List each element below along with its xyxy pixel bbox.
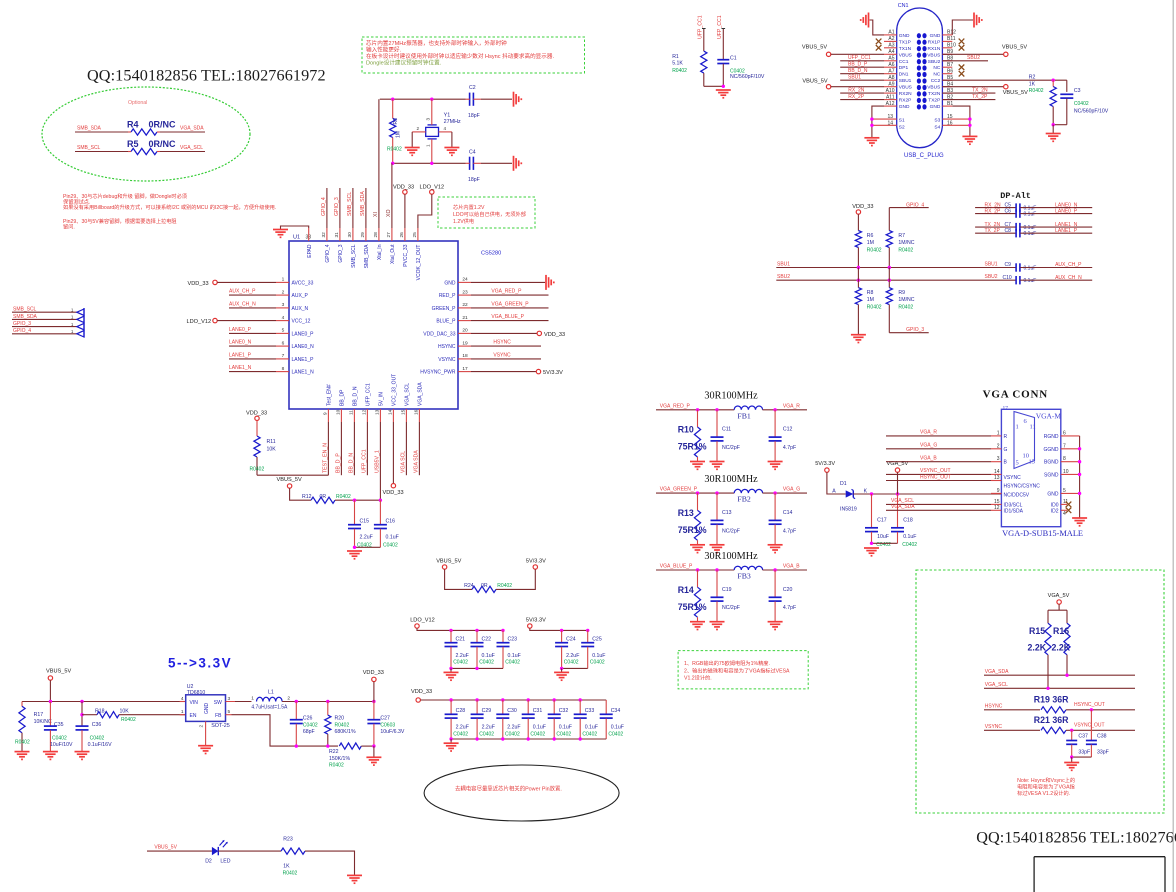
svg-text:NC/2pF: NC/2pF: [722, 528, 740, 534]
diode D1 IN5819: [846, 490, 854, 497]
wire R1/C1 bottoms: [704, 85, 724, 87]
svg-text:R2: R2: [1029, 75, 1036, 81]
svg-text:SMB_SCL: SMB_SCL: [13, 307, 37, 313]
node junction VGA ground bus: [1078, 492, 1081, 495]
wire R5 to VGA_SCL: [160, 151, 205, 153]
node junction C32 top: [553, 698, 556, 701]
svg-text:C0402: C0402: [303, 722, 318, 728]
svg-text:1: 1: [181, 709, 184, 715]
wire R16 to VGA_SDA: [1066, 655, 1068, 675]
svg-text:R0402: R0402: [672, 68, 687, 74]
svg-text:R18: R18: [95, 708, 105, 714]
svg-text:TX_2P: TX_2P: [972, 94, 988, 100]
wire R21 to VSYNC_OUT: [1066, 729, 1135, 731]
wire LDO_V12 rail: [417, 628, 503, 630]
svg-text:15: 15: [401, 409, 407, 415]
svg-text:TX_2N: TX_2N: [985, 222, 1001, 228]
svg-text:TX1N: TX1N: [899, 46, 912, 52]
capacitor C21 2.2uF: [450, 630, 452, 642]
ground below C19: [710, 621, 725, 623]
svg-text:BGND: BGND: [1044, 460, 1059, 466]
svg-text:R8: R8: [867, 290, 874, 296]
svg-text:R0402: R0402: [1029, 88, 1044, 94]
svg-text:C0402: C0402: [453, 660, 468, 666]
svg-text:VBUS_5V: VBUS_5V: [1002, 44, 1027, 50]
ground below R13: [690, 544, 705, 546]
svg-text:R5: R5: [127, 139, 139, 149]
svg-text:C0402: C0402: [479, 660, 494, 666]
pin 5 (LANE0_P) stub of U1: [276, 332, 289, 334]
svg-text:2.2uF: 2.2uF: [507, 725, 520, 731]
svg-text:680K/1%: 680K/1%: [335, 729, 356, 735]
node junction C32 bottom: [553, 737, 556, 740]
pin 10 (SGND) of VGA connector: [1061, 473, 1080, 475]
capacitor C16 0.1uF: [379, 500, 381, 524]
svg-text:C0402: C0402: [505, 731, 520, 737]
wire R2/C3 bottoms: [1053, 124, 1067, 126]
svg-text:C19: C19: [722, 587, 732, 593]
svg-text:1.2V供电: 1.2V供电: [453, 217, 474, 225]
svg-text:68pF: 68pF: [303, 729, 315, 735]
node junction C26 bottom: [295, 744, 298, 747]
node junction C19 top: [715, 568, 718, 571]
svg-text:LANE0_P: LANE0_P: [292, 331, 315, 337]
svg-text:0R: 0R: [320, 494, 327, 500]
svg-text:SBU2: SBU2: [928, 59, 941, 65]
svg-text:A5: A5: [888, 56, 894, 62]
svg-text:V1.2设计的.: V1.2设计的.: [684, 674, 712, 682]
svg-text:LANE1_P: LANE1_P: [1055, 228, 1078, 234]
svg-text:ID2: ID2: [1051, 508, 1059, 514]
svg-text:C1: C1: [730, 56, 737, 62]
capacitor C1 NC/560pF/10V: [717, 59, 729, 61]
pin 7 (LANE1_P) stub of U1: [276, 358, 289, 360]
power port 5V/3.3V pin17: [536, 369, 540, 373]
svg-text:SMB_SCL: SMB_SCL: [351, 244, 357, 268]
svg-text:A1: A1: [888, 30, 894, 36]
svg-text:10K: 10K: [120, 708, 130, 714]
svg-text:VDD_33: VDD_33: [852, 204, 873, 210]
svg-text:R23: R23: [283, 837, 293, 843]
power port VDD_33 pin1: [213, 280, 217, 284]
wire SMB_SCL above U1: [352, 188, 354, 228]
svg-text:GPIO_4: GPIO_4: [321, 197, 327, 216]
svg-text:C13: C13: [722, 510, 732, 516]
svg-text:5V_IN: 5V_IN: [379, 392, 385, 406]
node junction R16/VGA_SDA: [1065, 674, 1068, 677]
ground below R23: [347, 874, 362, 876]
svg-text:U1: U1: [293, 235, 300, 241]
wire D1 cathode to VGA pin9: [853, 493, 1001, 495]
svg-text:C38: C38: [1097, 733, 1107, 739]
svg-text:16: 16: [414, 409, 420, 415]
svg-text:A9: A9: [888, 82, 894, 88]
svg-text:26: 26: [399, 232, 405, 238]
svg-text:14: 14: [887, 121, 893, 127]
svg-text:S2: S2: [899, 125, 905, 131]
svg-text:1: 1: [282, 277, 285, 283]
svg-text:R11: R11: [267, 439, 276, 445]
pin 32 (GPIO_4) stub of U1: [326, 228, 328, 241]
svg-text:EN: EN: [190, 713, 197, 719]
svg-text:1M: 1M: [867, 240, 874, 246]
node junction C37 bottom: [1070, 755, 1073, 758]
svg-text:31: 31: [334, 232, 340, 238]
capacitor C34 0.1uF: [605, 700, 607, 714]
wire D2 to R23: [218, 850, 281, 852]
svg-text:R4: R4: [127, 120, 139, 130]
svg-text:C23: C23: [508, 636, 518, 642]
pin 2 (G) of VGA connector: [991, 448, 1001, 450]
pin 3 (B) of VGA connector: [991, 461, 1001, 463]
svg-text:DP-Alt: DP-Alt: [1000, 191, 1031, 201]
svg-text:TX2N: TX2N: [928, 91, 941, 97]
wire UFP_CC1 below U1: [366, 422, 368, 475]
svg-text:SBU1: SBU1: [777, 261, 790, 267]
svg-text:VSYNC: VSYNC: [985, 724, 1003, 730]
crystal Y1: [426, 127, 439, 136]
svg-text:LANE1_P: LANE1_P: [292, 357, 315, 363]
wire VGA_GREEN_P into filter: [656, 492, 734, 494]
svg-text:C4: C4: [469, 150, 476, 156]
ground below C1: [716, 89, 731, 91]
svg-text:4: 4: [282, 315, 285, 321]
pin A9 (VBUS) of CN1: [884, 86, 897, 88]
svg-text:VBUS_5V: VBUS_5V: [1003, 90, 1028, 96]
svg-text:13: 13: [994, 475, 1000, 481]
svg-text:VBUS_5V: VBUS_5V: [46, 668, 71, 674]
svg-text:VDD_33: VDD_33: [246, 411, 267, 417]
resistor R4: [131, 129, 157, 135]
pin 25 (VCOK_12_OUT) stub of U1: [417, 228, 419, 241]
ground below R2: [1046, 133, 1061, 135]
svg-text:R: R: [1004, 434, 1008, 440]
svg-text:2.2uF: 2.2uF: [566, 653, 579, 659]
svg-text:2.2K: 2.2K: [1052, 643, 1071, 653]
svg-text:B7: B7: [947, 62, 953, 68]
wire SW to L1: [226, 701, 252, 703]
svg-text:VIN: VIN: [190, 700, 199, 706]
wire B12 GND to ground: [952, 20, 973, 35]
svg-text:SMB_SDA: SMB_SDA: [77, 126, 102, 132]
svg-text:R3: R3: [393, 118, 399, 125]
svg-text:10: 10: [336, 409, 342, 415]
wire 5V/3.3V rail: [530, 628, 588, 630]
wire TX_2P to C8: [975, 232, 1016, 234]
svg-text:HSYNC: HSYNC: [493, 340, 511, 346]
wire C5 to LANE0_N: [1020, 207, 1092, 209]
ground below C27: [366, 756, 381, 758]
svg-text:LANE0_P: LANE0_P: [1055, 208, 1078, 214]
svg-text:R0402: R0402: [15, 740, 30, 746]
svg-text:K: K: [864, 488, 868, 494]
node junction C17 top: [870, 492, 873, 495]
node junction top rail XTAL: [430, 98, 433, 101]
svg-text:C31: C31: [533, 708, 543, 714]
capacitor C6 0.1uF: [1015, 209, 1017, 217]
svg-text:Xtal_In: Xtal_In: [377, 244, 383, 260]
capacitor C22 0.1uF: [476, 630, 478, 642]
svg-text:EPAD: EPAD: [307, 244, 313, 258]
svg-text:R0402: R0402: [283, 871, 298, 877]
svg-text:L1: L1: [268, 690, 274, 696]
svg-text:30R100MHz: 30R100MHz: [704, 474, 758, 485]
svg-text:SBU1: SBU1: [848, 75, 861, 81]
svg-text:10uF/10V: 10uF/10V: [50, 742, 73, 748]
svg-text:23: 23: [462, 289, 468, 295]
pin columns of CN1: [917, 33, 921, 38]
svg-text:VGA_RED_P: VGA_RED_P: [491, 289, 522, 295]
svg-text:VGA_BLUE_P: VGA_BLUE_P: [660, 564, 693, 570]
svg-text:4.7pF: 4.7pF: [783, 528, 796, 534]
wire SMB_SDA above U1: [365, 188, 367, 228]
wire BB_D_P below U1: [340, 422, 342, 475]
capacitor C24 2.2uF: [561, 630, 563, 642]
wire RX_2P to C6: [975, 213, 1016, 215]
pin 11 (ID0) of VGA connector no-connect: [1061, 503, 1067, 505]
pin 33 (EPAD) stub of U1: [308, 228, 310, 241]
wire pin21 BLUE_P: [471, 320, 549, 322]
wire AUX_CH_P to pin2: [229, 294, 276, 296]
node junction R6/SBU1: [857, 266, 860, 269]
svg-text:C2: C2: [469, 85, 476, 91]
svg-text:TX_2P: TX_2P: [985, 228, 1001, 234]
svg-text:4.7uH,Isat=1.5A: 4.7uH,Isat=1.5A: [251, 704, 288, 710]
svg-text:0.1uF: 0.1uF: [1024, 278, 1037, 284]
svg-text:SMB_SCL: SMB_SCL: [347, 192, 353, 216]
svg-text:SOT-25: SOT-25: [211, 723, 230, 729]
resistor R22 150K/1%: [339, 743, 361, 749]
title block frame: [1034, 856, 1165, 858]
wire B2 TX_2P: [942, 99, 995, 101]
svg-text:LDO_V12: LDO_V12: [420, 185, 445, 191]
wire SMB_SCL to header: [12, 311, 77, 313]
svg-text:2: 2: [417, 126, 420, 131]
svg-text:VGA_R: VGA_R: [783, 403, 800, 409]
pin B9 (VBUS) of CN1: [942, 53, 952, 55]
svg-text:GND: GND: [899, 104, 910, 110]
svg-text:5.1K: 5.1K: [672, 61, 683, 67]
svg-text:C0402: C0402: [556, 731, 571, 737]
wire EPAD to ground: [281, 226, 309, 230]
svg-text:VCOK_12_OUT: VCOK_12_OUT: [416, 245, 422, 281]
svg-text:TX_2N: TX_2N: [972, 88, 988, 94]
svg-text:UFP_CC1: UFP_CC1: [848, 55, 871, 61]
ground below R17: [15, 751, 30, 753]
svg-text:S3: S3: [934, 118, 940, 124]
pin 26 (PVCC_33) stub of U1: [404, 228, 406, 241]
svg-text:75R1%: 75R1%: [678, 525, 707, 535]
wire RX_2N to A10: [840, 92, 884, 94]
svg-text:LDO_V12: LDO_V12: [410, 618, 435, 624]
wire C8 to LANE1_P: [1020, 232, 1092, 234]
ground below C20: [768, 621, 783, 623]
svg-text:A2: A2: [888, 36, 894, 42]
node junction R20 top: [326, 700, 329, 703]
svg-text:R0402: R0402: [336, 494, 351, 500]
wire R22 to C27 bottom: [361, 745, 374, 747]
wire VGA_5V split: [1058, 604, 1060, 610]
svg-text:HVSYNC_PWR: HVSYNC_PWR: [420, 370, 456, 376]
node junction C1 bottom: [722, 85, 725, 88]
resistor R13 75R1%: [697, 493, 699, 510]
svg-text:SMB_SDA: SMB_SDA: [13, 314, 38, 320]
pin A11 (RX2P) of CN1: [884, 99, 897, 101]
svg-text:QQ:1540182856 TEL:18027661972: QQ:1540182856 TEL:18027661972: [976, 829, 1176, 847]
svg-text:GND: GND: [930, 104, 941, 110]
pin B6 (NC) of CN1: [942, 73, 952, 75]
no-connect X at B6: [959, 71, 965, 77]
capacitor C8 0.1uF: [1015, 229, 1017, 237]
svg-text:IN5819: IN5819: [840, 506, 857, 512]
svg-text:C0402: C0402: [530, 731, 545, 737]
capacitor C5 0.1uF: [1015, 203, 1017, 211]
capacitor C18 0.1uF: [897, 494, 899, 528]
svg-text:6: 6: [282, 340, 285, 346]
svg-text:Optional: Optional: [128, 100, 147, 106]
capacitor C14 4.7pF: [774, 493, 776, 520]
svg-text:0.1uF: 0.1uF: [508, 653, 521, 659]
wire LDO decoupling bottoms: [451, 667, 503, 669]
node junction C31 bottom: [527, 737, 530, 740]
svg-text:VSYNC: VSYNC: [1004, 475, 1022, 481]
capacitor C30 2.2uF: [502, 700, 504, 714]
wire VGA_SCL to VGA pin 15: [886, 503, 991, 505]
regulator U2 TD6810: [186, 695, 226, 722]
wire VBUS_5V to D2: [147, 850, 212, 852]
resistor R14 75R1%: [697, 570, 699, 587]
wire BB_D_N to A7: [840, 73, 884, 75]
wire to ground below C27: [373, 746, 375, 757]
svg-text:0R: 0R: [481, 583, 488, 589]
svg-text:NC/560pF/10V: NC/560pF/10V: [730, 74, 765, 80]
svg-text:VSYNC_OUT: VSYNC_OUT: [1074, 723, 1105, 729]
svg-text:QQ:1540182856 TEL:18027661972: QQ:1540182856 TEL:18027661972: [87, 67, 326, 85]
svg-text:C0402: C0402: [1074, 101, 1089, 107]
wire GPIO_4 to R7: [889, 207, 928, 209]
wire C10 to AUX_CH_N: [1020, 279, 1092, 281]
wire LDO_V12 to pin25: [418, 194, 432, 228]
svg-text:VSYNC_OUT: VSYNC_OUT: [920, 468, 951, 474]
svg-text:VGA_B: VGA_B: [920, 456, 937, 462]
pin A3 (TX1N) of CN1: [884, 47, 897, 49]
svg-text:4: 4: [181, 696, 184, 702]
resistor R19 36R: [1041, 707, 1066, 713]
wire FB loop: [226, 714, 232, 716]
pin B12 (GND) of CN1: [942, 34, 952, 36]
svg-text:VGA_RED_P: VGA_RED_P: [660, 403, 691, 409]
svg-text:VDD_33: VDD_33: [393, 185, 414, 191]
node junction C13 top: [715, 491, 718, 494]
ground right of C4: [513, 156, 515, 171]
svg-text:GND: GND: [444, 280, 456, 286]
connector P1 VGA-D-SUB15 body: [1001, 409, 1060, 526]
wire R9 to GPIO_3: [889, 332, 928, 334]
svg-text:Y1: Y1: [444, 113, 451, 119]
svg-text:1M/NC: 1M/NC: [898, 240, 914, 246]
no-connect X at B10: [959, 45, 965, 51]
svg-text:C29: C29: [482, 708, 492, 714]
svg-text:16: 16: [947, 121, 953, 127]
wire VDD_33 decoupling rail: [420, 699, 606, 701]
wire LANE0_P to pin5: [229, 332, 276, 334]
svg-text:17: 17: [462, 366, 468, 372]
svg-text:VCC_12: VCC_12: [292, 319, 311, 325]
pin 2 (AUX_P) stub of U1: [276, 294, 289, 296]
capacitor C37 33pF: [1071, 730, 1073, 740]
svg-text:2.2uF: 2.2uF: [456, 653, 469, 659]
pin 13 (5V_IN) stub of U1: [379, 409, 381, 422]
svg-text:C8: C8: [1005, 228, 1012, 234]
svg-text:LANE0_N: LANE0_N: [229, 340, 252, 346]
svg-text:R0402: R0402: [898, 248, 913, 254]
svg-text:SBU1: SBU1: [985, 261, 998, 267]
svg-text:R0402: R0402: [387, 146, 402, 152]
svg-text:VBUS_5V: VBUS_5V: [802, 45, 827, 51]
wire pin23 RED_P: [471, 294, 549, 296]
wire between SBU buses R8 column: [857, 268, 859, 288]
pin 17 (HVSYNC_PWR) stub of U1: [458, 371, 471, 373]
ground below R14: [690, 621, 705, 623]
pin B8 (SBU2) of CN1: [942, 60, 952, 62]
svg-text:8: 8: [282, 366, 285, 372]
svg-text:C0402: C0402: [52, 735, 67, 741]
svg-text:R7: R7: [898, 233, 905, 239]
wire pin19 HSYNC: [471, 345, 541, 347]
svg-text:1K: 1K: [1029, 82, 1036, 88]
svg-text:C0402: C0402: [90, 735, 105, 741]
svg-text:USB5V_1: USB5V_1: [375, 450, 381, 473]
svg-text:C12: C12: [783, 427, 793, 433]
svg-text:GREEN_P: GREEN_P: [432, 306, 457, 312]
connector CN1 USB_C_PLUG body: [897, 8, 943, 148]
svg-text:C30: C30: [507, 708, 517, 714]
svg-text:0.1uF: 0.1uF: [482, 653, 495, 659]
svg-text:28: 28: [373, 232, 379, 238]
node junction C11 top: [715, 408, 718, 411]
svg-text:NC/2pF: NC/2pF: [722, 445, 740, 451]
svg-text:S4: S4: [934, 125, 940, 131]
svg-text:SBU2: SBU2: [967, 55, 980, 61]
svg-text:VGA_SDA: VGA_SDA: [418, 382, 424, 406]
pin A12 (GND) of CN1: [884, 105, 897, 107]
resistor R21 36R: [1041, 727, 1066, 733]
svg-text:12: 12: [362, 409, 368, 415]
svg-text:SGND: SGND: [1044, 472, 1059, 478]
pin 3 of Y1 to top rail: [431, 99, 433, 125]
svg-text:R16: R16: [1053, 626, 1069, 636]
capacitor C13 NC/2pF: [716, 493, 718, 520]
ground below A12 bus: [864, 137, 879, 139]
resistor R7 1M/NC: [886, 231, 892, 248]
pin 20 (VDD_DAC_33) stub of U1: [458, 332, 471, 334]
svg-text:VDD_33: VDD_33: [544, 332, 565, 338]
svg-text:LANE1_N: LANE1_N: [292, 370, 315, 376]
svg-text:C0402: C0402: [383, 543, 398, 549]
svg-text:7: 7: [282, 353, 285, 359]
svg-text:LANE1_N: LANE1_N: [229, 365, 252, 371]
svg-text:SBU2: SBU2: [985, 274, 998, 280]
pin 12 (UFP_CC1) stub of U1: [366, 409, 368, 422]
svg-text:4: 4: [444, 126, 447, 131]
svg-text:A11: A11: [886, 94, 895, 100]
svg-text:C22: C22: [482, 636, 492, 642]
node junction VBUS/VIN rail: [49, 700, 52, 703]
svg-text:4.7pF: 4.7pF: [783, 445, 796, 451]
ground left of A1: [868, 13, 870, 28]
pin A10 (RX2N) of CN1: [884, 92, 897, 94]
svg-text:UFP_CC1: UFP_CC1: [698, 15, 704, 39]
